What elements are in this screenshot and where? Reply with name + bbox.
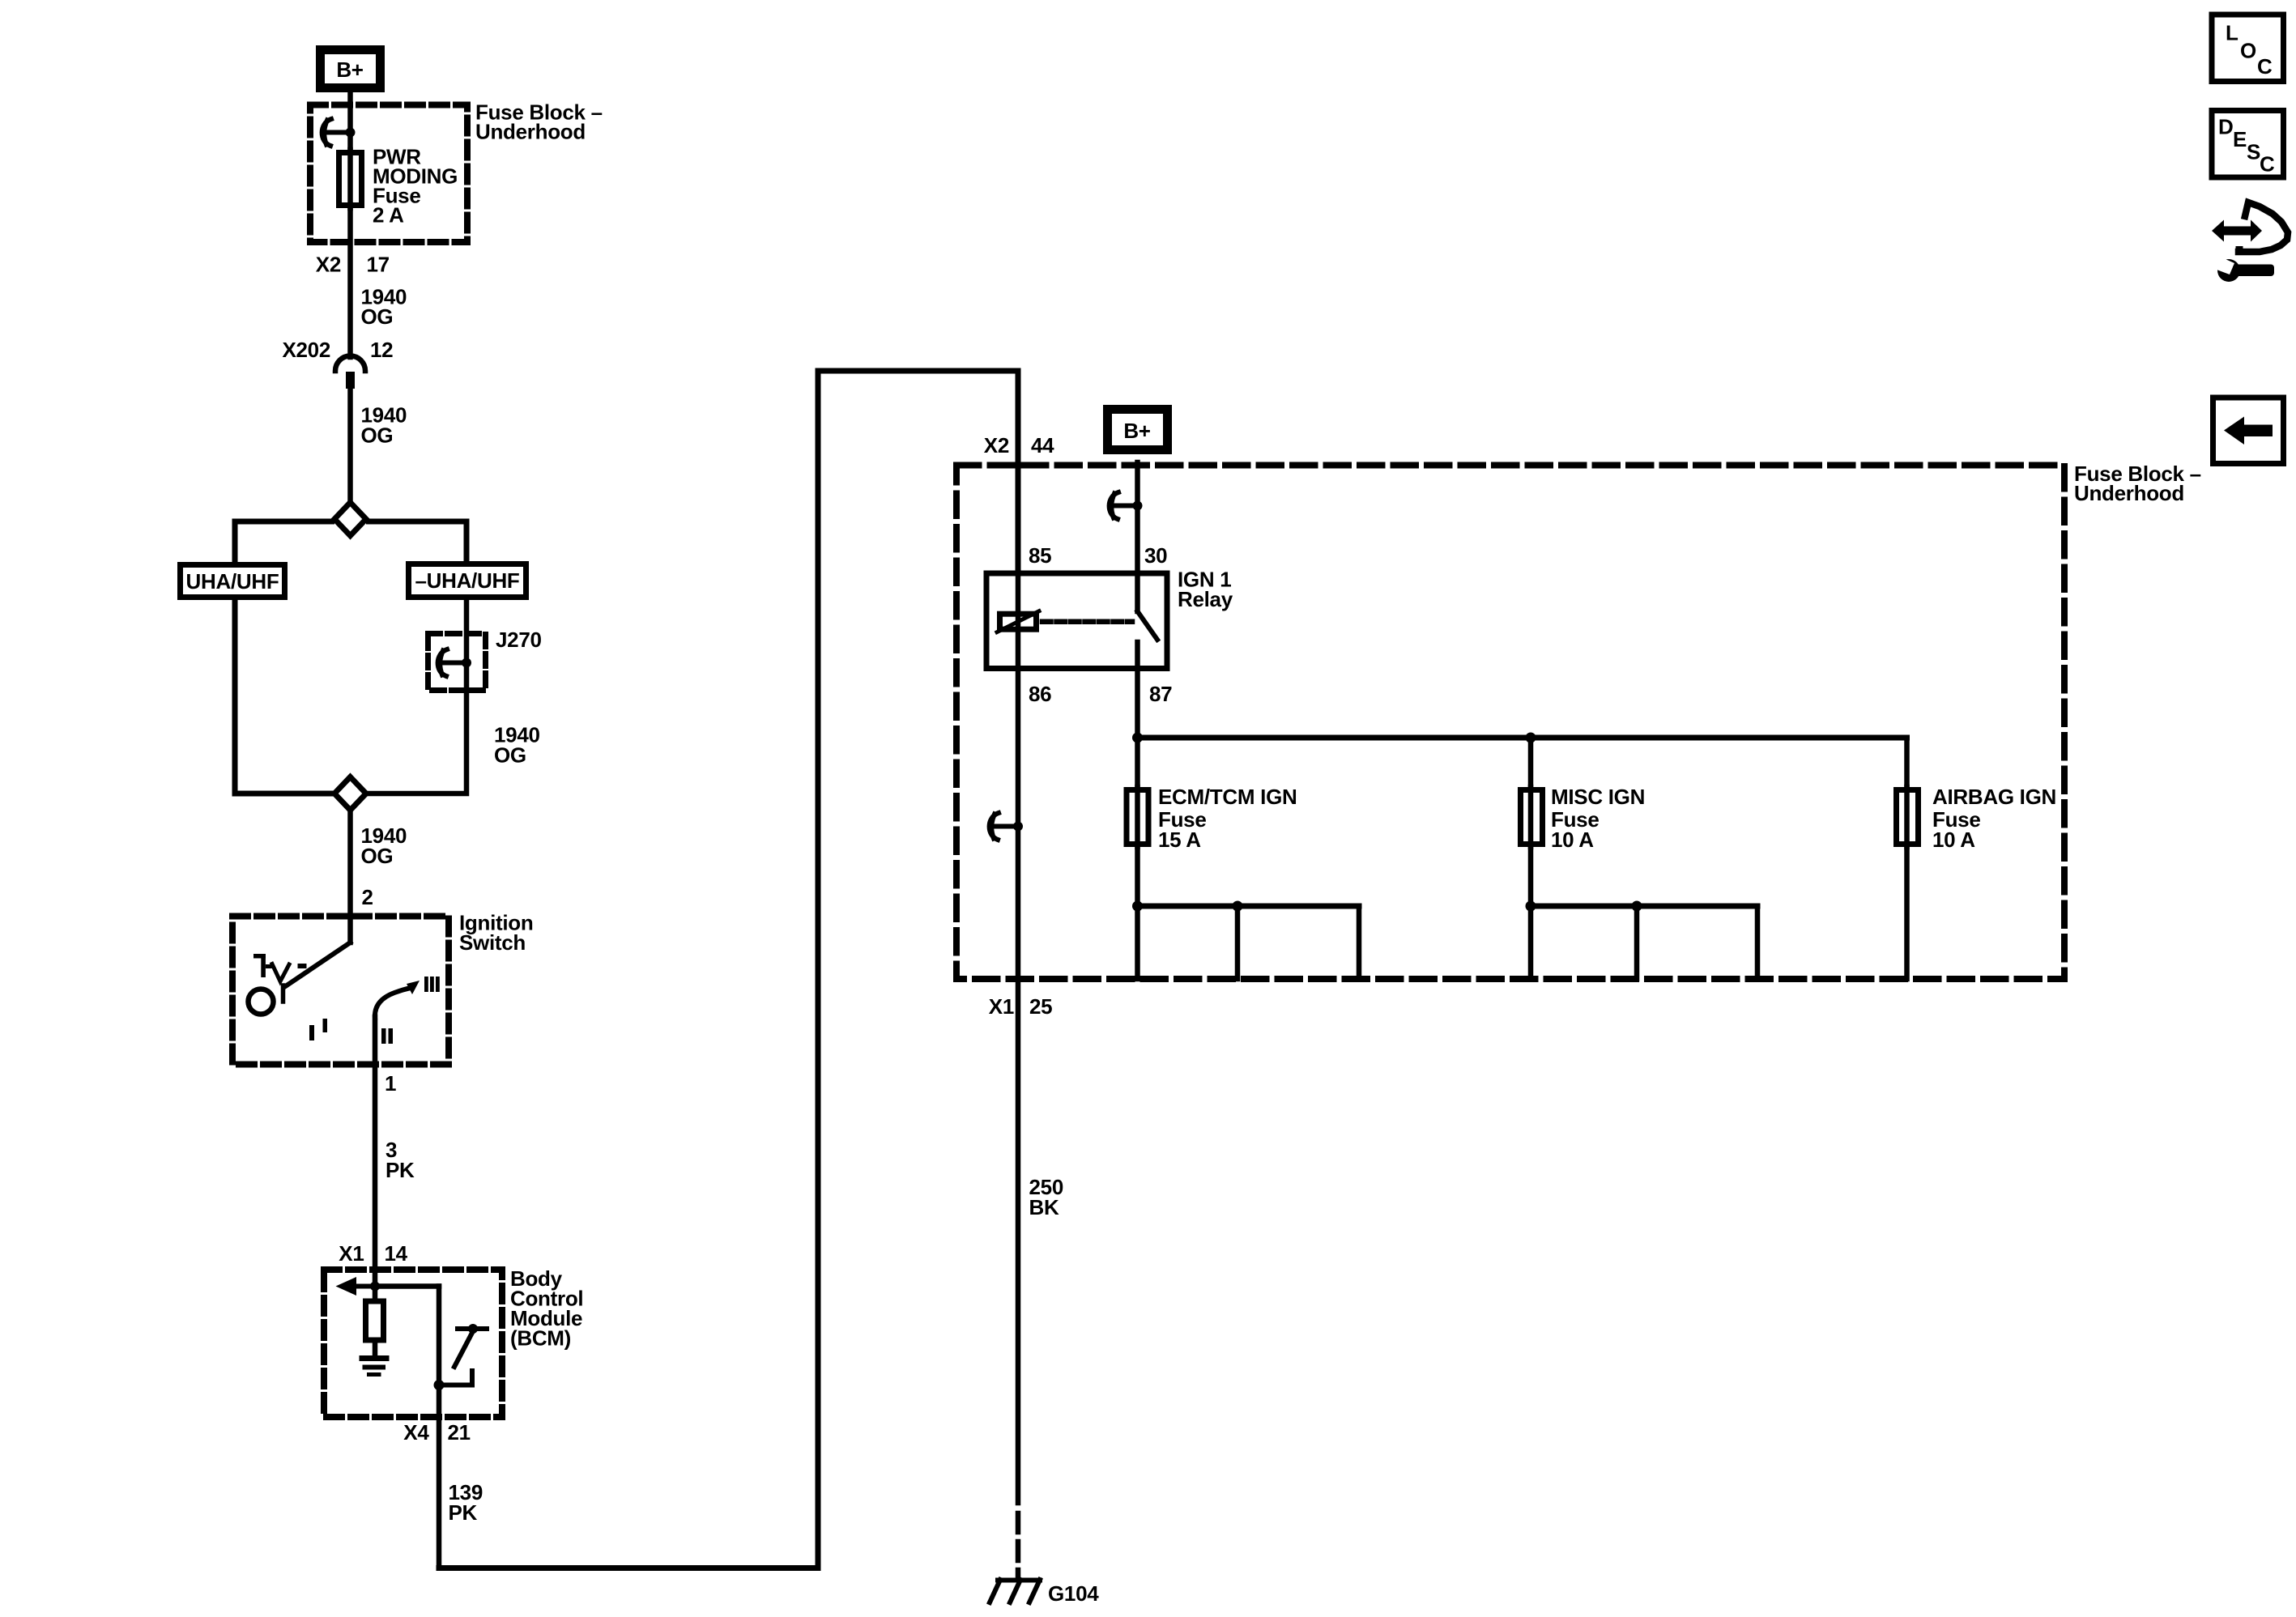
BCM signal arrow xyxy=(336,1277,376,1296)
label Fuse Block - Underhood (right) xyxy=(2074,462,2201,505)
icon LOC box xyxy=(2212,15,2284,82)
BCM switch symbol xyxy=(434,1324,488,1390)
wire right branch down xyxy=(369,600,467,794)
wire label 1940 OG (d) xyxy=(361,823,407,868)
connector X4 pin 21 labels xyxy=(403,1420,471,1445)
svg-text:D: D xyxy=(2218,115,2233,139)
svg-text:2: 2 xyxy=(362,885,373,909)
svg-text:ECM/TCM IGN: ECM/TCM IGN xyxy=(1158,785,1297,809)
wire label 1940 OG (a) xyxy=(361,285,407,330)
component -UHA/UHF xyxy=(409,564,526,598)
icon back-arrow box xyxy=(2213,398,2284,464)
svg-text:2 A: 2 A xyxy=(373,203,404,228)
svg-text:L: L xyxy=(2226,21,2238,45)
icon DESC box xyxy=(2212,111,2284,178)
relay switch lever xyxy=(1138,573,1158,738)
AIRBAG fuse output stub xyxy=(1904,847,1910,979)
ECM fuse output stubs xyxy=(1132,847,1359,979)
svg-text:X2: X2 xyxy=(984,433,1009,457)
tap symbol on pin 86 wire xyxy=(990,813,1023,840)
position mark III xyxy=(424,977,440,992)
wire B+ right down to relay pin 30 xyxy=(1135,462,1140,573)
splice diamond (top) xyxy=(334,503,366,536)
fuse PWR MODING 2A xyxy=(339,145,458,228)
relay actuation dashed link xyxy=(1042,619,1132,624)
ignition switch dashed box xyxy=(232,917,449,1065)
wire long run bottom and up to X2-44 xyxy=(439,371,1018,1568)
svg-text:X1: X1 xyxy=(989,994,1014,1019)
BCM branch wire to switch xyxy=(375,1287,439,1385)
ignition key symbol xyxy=(249,954,307,1015)
splice diamond (bottom) xyxy=(334,777,366,811)
BCM input junction xyxy=(370,1282,380,1291)
fuse block underhood (left) dashed box xyxy=(310,105,467,243)
svg-text:Relay: Relay xyxy=(1178,587,1233,611)
dashed wire to ground xyxy=(1016,1513,1021,1580)
svg-text:G104: G104 xyxy=(1048,1581,1099,1606)
svg-text:X2: X2 xyxy=(316,253,341,277)
svg-text:15 A: 15 A xyxy=(1158,828,1201,852)
wire label 250 BK xyxy=(1029,1175,1063,1219)
ground G104 symbol xyxy=(990,1580,1040,1602)
svg-text:PK: PK xyxy=(449,1500,478,1525)
svg-text:87: 87 xyxy=(1149,682,1172,706)
junction pin 87 feed xyxy=(1132,733,1143,743)
label Body Control Module (BCM) xyxy=(510,1266,583,1351)
svg-text:B+: B+ xyxy=(1123,419,1150,443)
J270 tap symbol xyxy=(438,649,471,676)
inline connector X202 pin 12 xyxy=(282,338,393,389)
fuse block tap symbol (right B+) xyxy=(1110,492,1143,519)
relay coil xyxy=(997,611,1039,632)
svg-text:UHA/UHF: UHA/UHF xyxy=(186,569,279,594)
svg-text:1: 1 xyxy=(385,1071,396,1096)
wire left branch down xyxy=(235,600,332,794)
bus wire top horizontal xyxy=(235,521,332,562)
fuse ECM/TCM IGN 15A xyxy=(1127,785,1297,852)
ignition switch lever (off position) xyxy=(284,943,351,987)
svg-text:–UHA/UHF: –UHA/UHF xyxy=(415,568,519,593)
junction MISC feed xyxy=(1526,733,1536,743)
component UHA/UHF xyxy=(181,565,285,598)
connector X2 pin 44 labels xyxy=(984,433,1054,457)
wire X202 to splice diamond xyxy=(347,389,353,500)
svg-text:O: O xyxy=(2240,39,2256,63)
svg-text:C: C xyxy=(2260,152,2275,177)
svg-text:E: E xyxy=(2233,127,2247,151)
fuse block tap symbol (left) xyxy=(322,119,356,146)
svg-text:MISC IGN: MISC IGN xyxy=(1551,785,1645,809)
wire pin 85 through coil to pin 86 xyxy=(1016,453,1021,1503)
connector X1 pin 14 labels xyxy=(339,1241,407,1266)
svg-text:85: 85 xyxy=(1029,543,1051,568)
svg-text:AIRBAG IGN: AIRBAG IGN xyxy=(1932,785,2056,809)
MISC fuse output stubs xyxy=(1526,847,1758,979)
svg-text:Underhood: Underhood xyxy=(475,120,586,144)
position mark II xyxy=(381,1028,393,1044)
svg-text:25: 25 xyxy=(1029,994,1052,1019)
wire label 3 PK xyxy=(386,1138,415,1182)
svg-text:OG: OG xyxy=(361,304,394,329)
wire AIRBAG feed xyxy=(1904,738,1910,787)
wire to ignition switch xyxy=(347,813,353,943)
svg-text:14: 14 xyxy=(385,1241,408,1266)
svg-text:Underhood: Underhood xyxy=(2074,481,2184,505)
svg-text:PK: PK xyxy=(386,1158,415,1182)
svg-text:B+: B+ xyxy=(336,57,363,82)
svg-text:OG: OG xyxy=(361,844,394,868)
svg-text:X1: X1 xyxy=(339,1241,364,1266)
ignition run lever arc with arrowhead xyxy=(375,981,420,1018)
svg-text:OG: OG xyxy=(361,423,394,448)
wire label 139 PK xyxy=(449,1480,483,1525)
svg-text:10 A: 10 A xyxy=(1551,828,1594,852)
svg-text:30: 30 xyxy=(1144,543,1167,568)
svg-text:10 A: 10 A xyxy=(1932,828,1975,852)
svg-text:OG: OG xyxy=(494,743,526,768)
wire fuse to X2-17 xyxy=(347,205,353,357)
svg-text:21: 21 xyxy=(448,1420,471,1445)
svg-text:Switch: Switch xyxy=(459,930,526,955)
junction J270 dashed box xyxy=(428,634,486,691)
svg-text:(BCM): (BCM) xyxy=(510,1326,571,1351)
fuse block underhood (right) dashed box xyxy=(956,466,2064,980)
feed bus wire to fuses xyxy=(1138,735,1907,741)
svg-text:J270: J270 xyxy=(496,628,542,652)
svg-text:86: 86 xyxy=(1029,682,1051,706)
body control module dashed box xyxy=(324,1270,502,1417)
svg-text:X202: X202 xyxy=(282,338,330,362)
wire B+ to fuse block (left) xyxy=(347,92,353,151)
label Ignition Switch xyxy=(459,911,533,955)
svg-text:17: 17 xyxy=(367,253,390,277)
svg-text:X4: X4 xyxy=(403,1420,429,1445)
connector X2 pin 17 labels xyxy=(316,253,390,277)
wire label 1940 OG (c) xyxy=(494,723,540,768)
icon connector-view (double arrow, outline, wrench) xyxy=(2212,202,2288,282)
wire ignition output pin 1 xyxy=(373,1017,378,1285)
svg-text:C: C xyxy=(2257,54,2273,79)
fuse AIRBAG IGN 10A xyxy=(1897,785,2057,852)
BCM internal ground xyxy=(362,1359,386,1375)
relay IGN 1 box xyxy=(986,573,1167,669)
wire label 1940 OG (b) xyxy=(361,403,407,448)
label IGN 1 Relay xyxy=(1178,568,1233,612)
position mark I xyxy=(309,1019,327,1040)
connector X1 pin 25 labels xyxy=(989,994,1053,1019)
wire BCM output X4-21 xyxy=(437,1385,442,1568)
svg-text:S: S xyxy=(2247,140,2260,164)
BCM pull-up resistor xyxy=(366,1286,384,1356)
power feed B+ (left) xyxy=(321,50,381,88)
svg-text:44: 44 xyxy=(1031,433,1054,457)
label Fuse Block - Underhood (left) xyxy=(475,100,603,144)
svg-text:BK: BK xyxy=(1029,1195,1059,1219)
fuse MISC IGN 10A xyxy=(1521,785,1646,852)
power feed B+ (right) xyxy=(1108,410,1168,450)
svg-text:12: 12 xyxy=(370,338,393,362)
